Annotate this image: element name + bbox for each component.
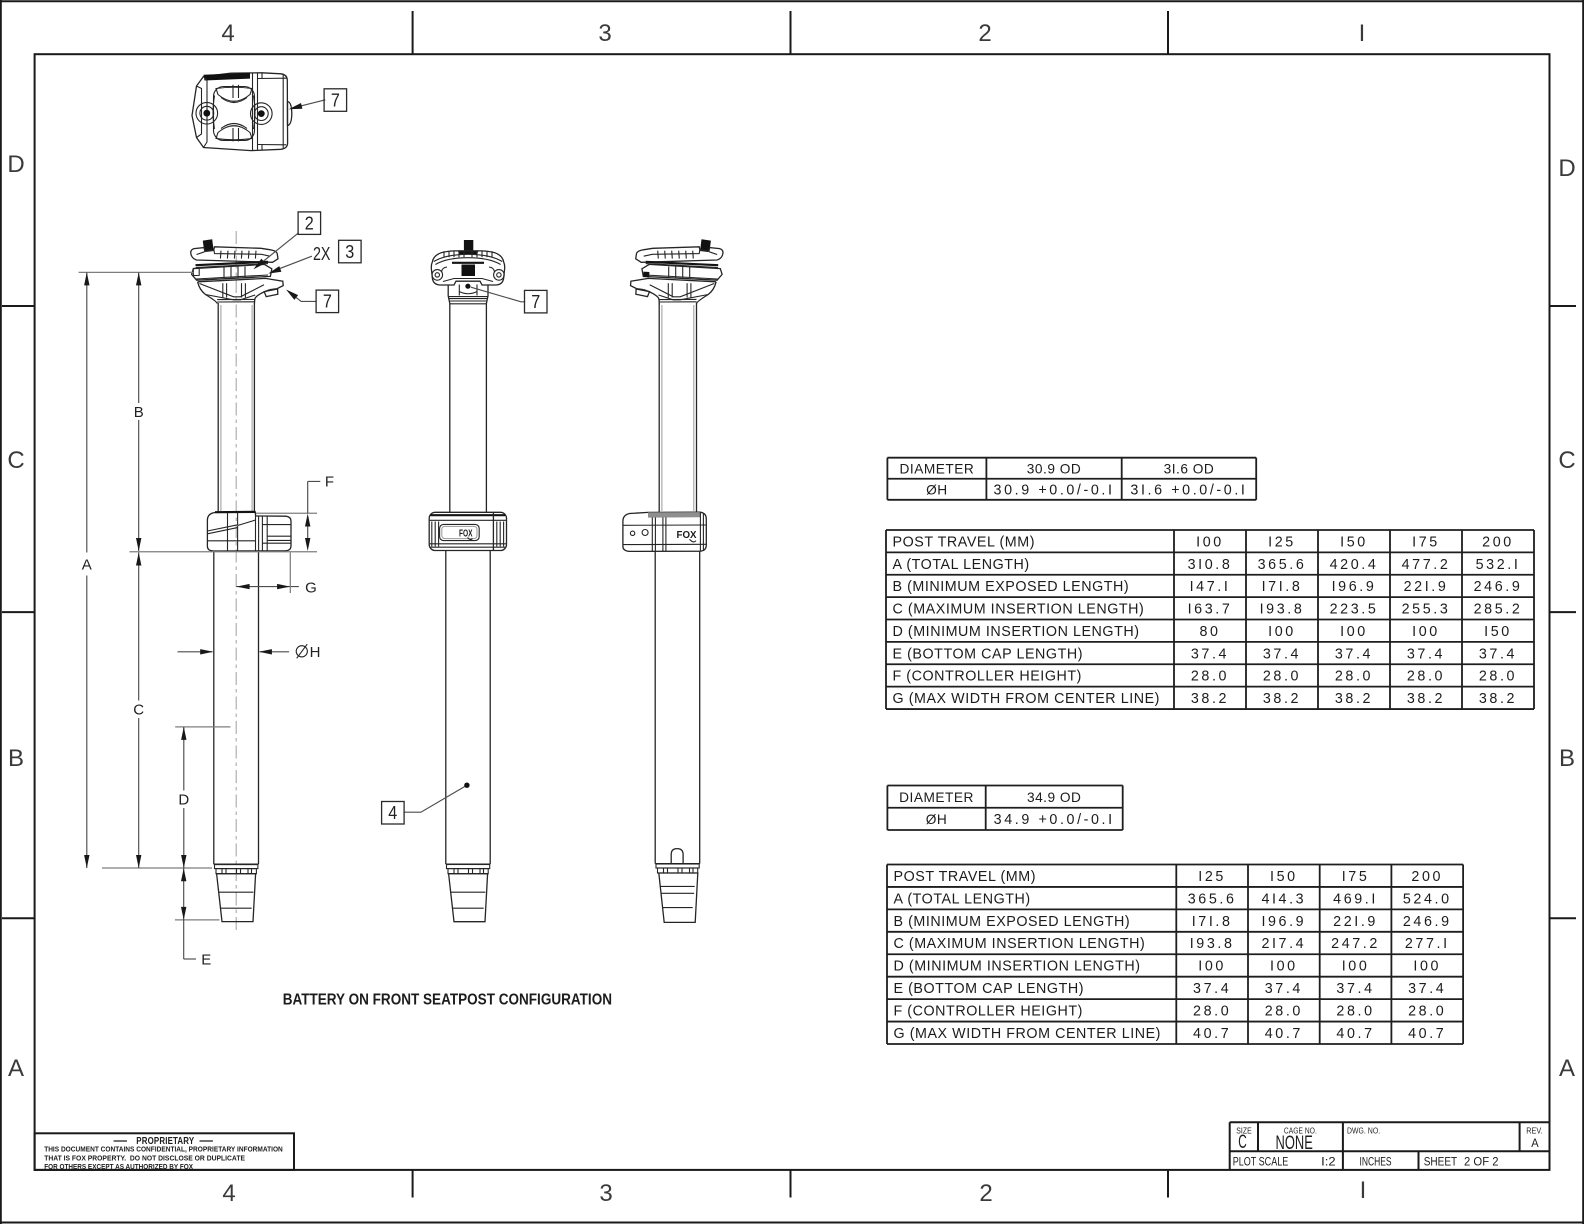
svg-text:I50: I50 — [1484, 624, 1512, 640]
svg-text:A: A — [82, 557, 92, 574]
dim A — [86, 272, 88, 552]
svg-text:D: D — [178, 791, 189, 808]
svg-text:A (TOTAL LENGTH): A (TOTAL LENGTH) — [893, 557, 1030, 573]
svg-text:G (MAX WIDTH FROM CENTER LINE): G (MAX WIDTH FROM CENTER LINE) — [894, 1026, 1161, 1042]
extension line E bottom — [175, 919, 220, 921]
right view upper tube — [658, 303, 660, 512]
svg-text:B: B — [8, 745, 24, 772]
svg-text:B (MINIMUM EXPOSED LENGTH): B (MINIMUM EXPOSED LENGTH) — [894, 914, 1131, 930]
svg-text:2X: 2X — [313, 243, 331, 264]
svg-text:I75: I75 — [1342, 869, 1370, 885]
dim F — [308, 481, 321, 513]
svg-text:3I0.8: 3I0.8 — [1188, 557, 1233, 573]
svg-text:I63.7: I63.7 — [1188, 602, 1233, 618]
svg-text:B: B — [134, 404, 144, 421]
title block — [1230, 1122, 1550, 1170]
svg-text:A (TOTAL LENGTH): A (TOTAL LENGTH) — [894, 891, 1031, 907]
middle view saddle clamp — [431, 240, 504, 285]
svg-text:477.2: 477.2 — [1402, 557, 1451, 573]
svg-text:I25: I25 — [1198, 869, 1226, 885]
leader to 7 (detail view) — [292, 100, 326, 109]
dark latch blob right view — [643, 272, 649, 278]
svg-text:28.0: 28.0 — [1408, 1004, 1446, 1020]
svg-text:FOX: FOX — [677, 530, 697, 541]
left view lower tube — [213, 551, 215, 864]
svg-text:B (MINIMUM EXPOSED LENGTH): B (MINIMUM EXPOSED LENGTH) — [893, 579, 1130, 595]
svg-text:365.6: 365.6 — [1188, 891, 1237, 907]
svg-text:I00: I00 — [1340, 624, 1368, 640]
svg-text:I93.8: I93.8 — [1190, 936, 1235, 952]
leader 7 middle view — [471, 287, 525, 302]
callout box 4 — [382, 802, 405, 825]
callout box 3 — [339, 240, 362, 262]
svg-text:3: 3 — [599, 1180, 612, 1207]
dim D — [183, 727, 185, 791]
svg-text:I: I — [1360, 1177, 1367, 1204]
svg-text:A: A — [1531, 1136, 1539, 1150]
left view saddle clamp — [191, 239, 278, 280]
svg-text:37.4: 37.4 — [1193, 981, 1231, 997]
svg-text:REV.: REV. — [1526, 1125, 1543, 1135]
middle view bottom cap — [446, 864, 490, 922]
svg-text:A: A — [8, 1055, 24, 1082]
svg-text:FOX: FOX — [459, 529, 473, 540]
svg-text:524.0: 524.0 — [1403, 891, 1452, 907]
grease port dot — [465, 284, 470, 289]
svg-text:469.I: 469.I — [1333, 891, 1378, 907]
svg-text:365.6: 365.6 — [1258, 557, 1307, 573]
middle view head — [448, 284, 488, 513]
svg-text:2: 2 — [979, 1180, 992, 1207]
extension line collar bottom — [129, 551, 317, 553]
svg-text:30.9 +0.0/-0.I: 30.9 +0.0/-0.I — [994, 482, 1115, 498]
svg-text:28.0: 28.0 — [1191, 669, 1229, 685]
svg-text:I7I.8: I7I.8 — [1192, 914, 1233, 930]
svg-text:22I.9: 22I.9 — [1404, 579, 1449, 595]
svg-text:37.4: 37.4 — [1191, 646, 1229, 662]
svg-text:THIS DOCUMENT CONTAINS CONFIDE: THIS DOCUMENT CONTAINS CONFIDENTIAL, PRO… — [44, 1145, 283, 1154]
zone ticks top — [412, 11, 414, 54]
callout box 2 — [298, 212, 321, 235]
svg-text:2 OF 2: 2 OF 2 — [1464, 1154, 1499, 1168]
table: post travel 30.9/31.6 — [886, 530, 1534, 709]
detail view saddle clamp top — [192, 73, 292, 151]
svg-text:37.4: 37.4 — [1265, 981, 1303, 997]
table: diameter 34.9 — [887, 786, 1122, 831]
extension line F top — [256, 512, 317, 514]
svg-text:I50: I50 — [1340, 534, 1368, 550]
svg-text:C: C — [1238, 1132, 1247, 1153]
svg-text:E: E — [201, 952, 211, 969]
svg-text:POST TRAVEL (MM): POST TRAVEL (MM) — [893, 534, 1036, 550]
leader 2 — [256, 233, 298, 267]
svg-text:4: 4 — [221, 20, 234, 47]
svg-text:FOR OTHERS EXCEPT AS AUTHORIZE: FOR OTHERS EXCEPT AS AUTHORIZED BY FOX — [44, 1162, 193, 1171]
proprietary notice box — [35, 1133, 294, 1170]
svg-text:38.2: 38.2 — [1335, 691, 1373, 707]
svg-text:37.4: 37.4 — [1407, 646, 1445, 662]
dia H label — [296, 646, 307, 657]
svg-text:4: 4 — [388, 802, 397, 823]
left view head flare — [198, 278, 284, 303]
svg-text:INCHES: INCHES — [1360, 1154, 1392, 1168]
svg-text:7: 7 — [323, 291, 332, 312]
callout box 7 (middle view) — [525, 290, 548, 313]
right view lower tube — [654, 551, 656, 863]
svg-text:I00: I00 — [1196, 534, 1224, 550]
svg-text:40.7: 40.7 — [1193, 1026, 1231, 1042]
svg-text:A: A — [1559, 1055, 1575, 1082]
svg-text:I:2: I:2 — [1321, 1154, 1336, 1168]
svg-text:G: G — [305, 579, 317, 596]
dim C — [138, 553, 140, 701]
svg-text:40.7: 40.7 — [1336, 1026, 1374, 1042]
svg-text:E (BOTTOM CAP LENGTH): E (BOTTOM CAP LENGTH) — [894, 981, 1085, 997]
svg-text:37.4: 37.4 — [1479, 646, 1517, 662]
dim G — [236, 586, 298, 588]
svg-text:37.4: 37.4 — [1263, 646, 1301, 662]
dim H arrows — [178, 651, 213, 653]
svg-text:I96.9: I96.9 — [1332, 579, 1377, 595]
svg-text:28.0: 28.0 — [1265, 1004, 1303, 1020]
left view upper tube — [217, 303, 219, 512]
proprietary header — [114, 1140, 127, 1142]
svg-text:I47.I: I47.I — [1190, 579, 1231, 595]
svg-text:38.2: 38.2 — [1479, 691, 1517, 707]
svg-text:532.I: 532.I — [1476, 557, 1521, 573]
leader 4 — [403, 786, 465, 812]
svg-text:C: C — [133, 702, 144, 719]
svg-text:DWG. NO.: DWG. NO. — [1347, 1125, 1380, 1135]
svg-text:E (BOTTOM CAP LENGTH): E (BOTTOM CAP LENGTH) — [893, 646, 1084, 662]
svg-text:C: C — [1558, 447, 1575, 474]
svg-text:4I4.3: 4I4.3 — [1261, 891, 1306, 907]
svg-text:34.9 +0.0/-0.I: 34.9 +0.0/-0.I — [994, 812, 1115, 828]
extension line bottom (post bottom) — [102, 867, 212, 869]
svg-text:G (MAX WIDTH FROM CENTER LINE): G (MAX WIDTH FROM CENTER LINE) — [893, 691, 1160, 707]
svg-text:37.4: 37.4 — [1336, 981, 1374, 997]
svg-text:34.9 OD: 34.9 OD — [1027, 790, 1081, 805]
svg-text:I75: I75 — [1412, 534, 1440, 550]
leader 7 left view — [289, 292, 316, 302]
svg-text:37.4: 37.4 — [1335, 646, 1373, 662]
svg-text:D (MINIMUM INSERTION LENGTH): D (MINIMUM INSERTION LENGTH) — [893, 624, 1140, 640]
svg-text:277.I: 277.I — [1405, 936, 1450, 952]
svg-text:C (MAXIMUM INSERTION LENGTH): C (MAXIMUM INSERTION LENGTH) — [894, 936, 1146, 952]
svg-text:I00: I00 — [1198, 959, 1226, 975]
svg-text:I50: I50 — [1270, 869, 1298, 885]
svg-text:28.0: 28.0 — [1336, 1004, 1374, 1020]
extension line top (saddle plane) — [79, 271, 194, 273]
svg-text:255.3: 255.3 — [1402, 602, 1451, 618]
svg-text:C: C — [7, 447, 24, 474]
svg-text:28.0: 28.0 — [1407, 669, 1445, 685]
svg-text:7: 7 — [531, 291, 540, 312]
svg-text:I25: I25 — [1268, 534, 1296, 550]
zone ticks left — [2, 305, 35, 307]
left view bottom cap — [214, 864, 259, 921]
svg-text:I00: I00 — [1413, 959, 1441, 975]
svg-text:28.0: 28.0 — [1335, 669, 1373, 685]
svg-text:I00: I00 — [1270, 959, 1298, 975]
svg-text:28.0: 28.0 — [1263, 669, 1301, 685]
svg-text:420.4: 420.4 — [1330, 557, 1379, 573]
extension line G right — [289, 553, 291, 594]
svg-text:4: 4 — [222, 1180, 235, 1207]
svg-text:28.0: 28.0 — [1479, 669, 1517, 685]
left view centerline — [235, 231, 237, 930]
svg-text:F (CONTROLLER HEIGHT): F (CONTROLLER HEIGHT) — [893, 669, 1082, 685]
right view bottom cap — [655, 864, 700, 923]
svg-text:I96.9: I96.9 — [1261, 914, 1306, 930]
right view saddle clamp — [636, 239, 723, 280]
callout box 7 (left view) — [316, 290, 339, 313]
svg-text:38.2: 38.2 — [1263, 691, 1301, 707]
svg-text:F: F — [325, 474, 334, 491]
svg-text:28.0: 28.0 — [1193, 1004, 1231, 1020]
callout box 7 (detail view) — [324, 89, 347, 112]
svg-text:246.9: 246.9 — [1474, 579, 1523, 595]
dim B — [138, 272, 140, 403]
svg-text:I00: I00 — [1342, 959, 1370, 975]
right view head flare — [631, 278, 717, 303]
svg-text:22I.9: 22I.9 — [1333, 914, 1378, 930]
svg-text:D: D — [1558, 155, 1575, 182]
dim E — [183, 868, 185, 959]
svg-text:37.4: 37.4 — [1408, 981, 1446, 997]
svg-text:ØH: ØH — [926, 482, 948, 497]
svg-text:40.7: 40.7 — [1408, 1026, 1446, 1042]
svg-text:2: 2 — [978, 20, 991, 47]
svg-text:D (MINIMUM INSERTION LENGTH): D (MINIMUM INSERTION LENGTH) — [894, 959, 1141, 975]
svg-text:I00: I00 — [1268, 624, 1296, 640]
svg-text:THAT IS FOX PROPERTY. DO NOT: THAT IS FOX PROPERTY. DO NOT DISCLOSE OR… — [44, 1153, 245, 1162]
svg-text:246.9: 246.9 — [1403, 914, 1452, 930]
zone ticks bottom — [412, 1170, 414, 1198]
leader 2X — [271, 256, 312, 272]
svg-text:3: 3 — [345, 241, 354, 262]
sheet outer border — [0, 0, 1584, 2]
svg-text:I93.8: I93.8 — [1260, 602, 1305, 618]
svg-text:F (CONTROLLER HEIGHT): F (CONTROLLER HEIGHT) — [894, 1004, 1083, 1020]
svg-text:BATTERY ON FRONT SEATPOST CONF: BATTERY ON FRONT SEATPOST CONFIGURATION — [283, 992, 612, 1009]
svg-text:38.2: 38.2 — [1191, 691, 1229, 707]
svg-text:B: B — [1559, 745, 1575, 772]
svg-text:2I7.4: 2I7.4 — [1261, 936, 1306, 952]
svg-text:200: 200 — [1482, 534, 1514, 550]
svg-text:I: I — [1359, 20, 1366, 47]
svg-text:SHEET: SHEET — [1424, 1154, 1458, 1168]
svg-text:DIAMETER: DIAMETER — [899, 790, 974, 805]
svg-text:200: 200 — [1411, 869, 1443, 885]
table: post travel 34.9 — [887, 865, 1463, 1045]
svg-text:I7I.8: I7I.8 — [1262, 579, 1303, 595]
svg-text:40.7: 40.7 — [1265, 1026, 1303, 1042]
svg-text:D: D — [7, 151, 24, 178]
middle view lower tube — [445, 551, 447, 865]
right view battery keyhole — [671, 849, 683, 864]
svg-text:223.5: 223.5 — [1330, 602, 1379, 618]
svg-text:7: 7 — [331, 89, 340, 110]
left view collar — [207, 512, 291, 551]
svg-text:3: 3 — [598, 20, 611, 47]
svg-text:2: 2 — [305, 213, 314, 234]
svg-text:C (MAXIMUM INSERTION LENGTH): C (MAXIMUM INSERTION LENGTH) — [893, 602, 1145, 618]
svg-text:NONE: NONE — [1276, 1133, 1313, 1154]
svg-text:30.9 OD: 30.9 OD — [1027, 461, 1081, 476]
extension line D top — [175, 726, 230, 728]
svg-text:285.2: 285.2 — [1474, 602, 1523, 618]
svg-text:3I.6 +0.0/-0.I: 3I.6 +0.0/-0.I — [1130, 482, 1247, 498]
svg-text:I00: I00 — [1412, 624, 1440, 640]
svg-text:PLOT SCALE: PLOT SCALE — [1233, 1154, 1289, 1168]
svg-text:ØH: ØH — [926, 812, 948, 827]
zone ticks right — [1550, 305, 1577, 307]
svg-text:80: 80 — [1199, 624, 1220, 640]
svg-text:POST TRAVEL (MM): POST TRAVEL (MM) — [894, 869, 1037, 885]
table: diameter 30.9/31.6 — [887, 458, 1256, 500]
svg-text:38.2: 38.2 — [1407, 691, 1445, 707]
svg-text:3I.6 OD: 3I.6 OD — [1164, 461, 1215, 476]
svg-text:DIAMETER: DIAMETER — [900, 461, 975, 476]
svg-text:247.2: 247.2 — [1331, 936, 1380, 952]
middle view collar — [429, 512, 506, 550]
right view collar — [623, 512, 706, 551]
svg-text:H: H — [310, 644, 321, 661]
